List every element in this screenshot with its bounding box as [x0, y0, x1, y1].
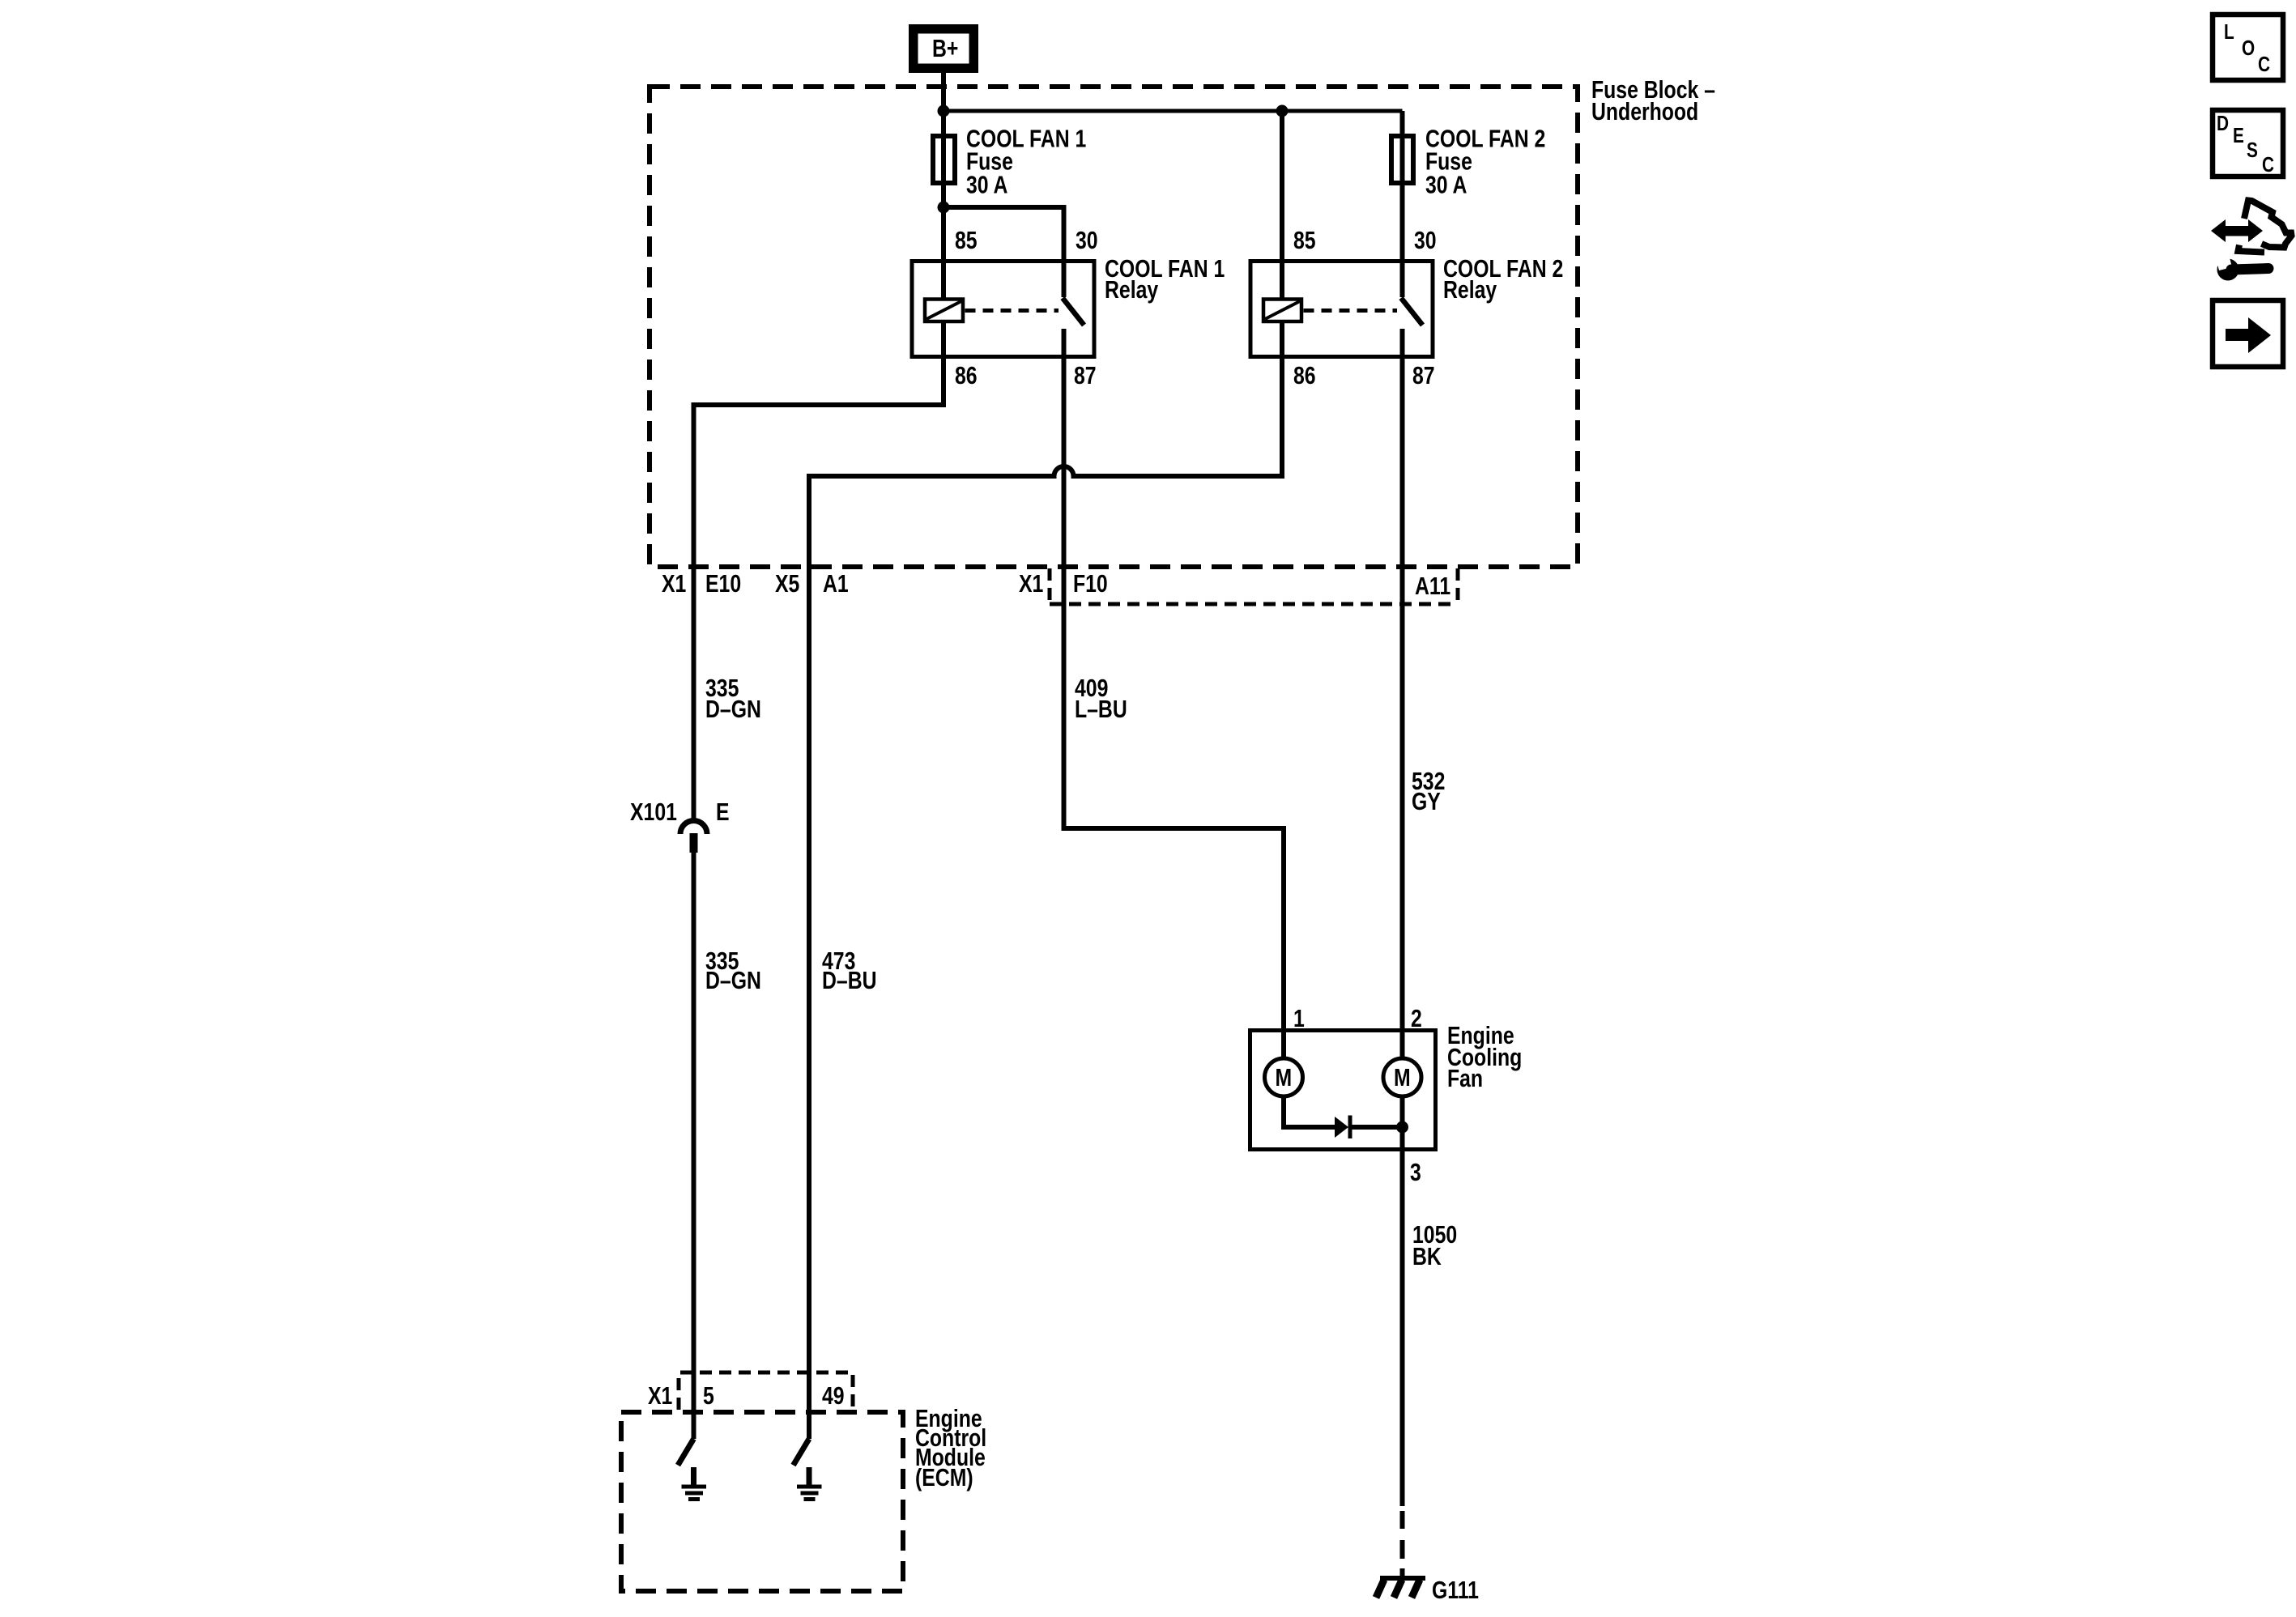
- ECM dashed box: [621, 1412, 903, 1591]
- relay 1 coil: [925, 300, 963, 322]
- svg-text:Underhood: Underhood: [1591, 97, 1698, 125]
- diode: [1335, 1116, 1403, 1139]
- connector row dashed box X1 F10 A11: [1050, 568, 1458, 604]
- svg-text:1: 1: [1293, 1004, 1305, 1032]
- label 335 D-GN lower: [705, 947, 761, 994]
- svg-text:C: C: [2262, 153, 2274, 177]
- wire relay 1 pin 87 to fan pin 1 circuit 409 L-BU: [1064, 329, 1284, 1057]
- svg-text:X5: X5: [775, 569, 799, 597]
- svg-text:86: 86: [1293, 361, 1316, 389]
- ECM switch blade pin 5: [678, 1439, 694, 1466]
- connector label X1 F10: [1019, 569, 1108, 597]
- svg-text:B+: B+: [932, 34, 958, 62]
- fuse block - underhood dashed box: [650, 87, 1578, 567]
- svg-text:E: E: [716, 798, 730, 825]
- svg-text:X1: X1: [648, 1381, 672, 1409]
- relay 1 switch blade pin 30 to 87: [1063, 298, 1084, 326]
- svg-text:E10: E10: [705, 569, 741, 597]
- svg-text:3: 3: [1410, 1158, 1421, 1185]
- ground symbol ECM pin 5: [682, 1467, 707, 1500]
- svg-text:D–GN: D–GN: [705, 966, 761, 994]
- wire B+ down through fuse 1 to relay 1 coil pin 85: [941, 73, 946, 299]
- fan motor M right: [1383, 1058, 1421, 1096]
- wire bus feed to cool fan 2 branch: [944, 109, 1403, 113]
- junction at cool fan 2 branch: [1276, 105, 1289, 117]
- icon hand with double arrow and wrench: [2211, 201, 2292, 281]
- svg-text:L: L: [2224, 20, 2234, 44]
- label 473 D-BU: [822, 947, 877, 994]
- connector label X1 E10: [662, 569, 741, 597]
- svg-text:D: D: [2217, 112, 2229, 135]
- svg-text:Fan: Fan: [1447, 1064, 1483, 1091]
- label COOL FAN 2 Relay: [1443, 254, 1563, 303]
- relay COOL FAN 1 box: [912, 262, 1094, 357]
- svg-text:30: 30: [1076, 226, 1098, 253]
- wire X101 to ECM connector: [692, 853, 696, 1439]
- svg-text:Relay: Relay: [1105, 275, 1159, 303]
- label COOL FAN 1 Relay: [1105, 254, 1225, 303]
- label 409 L-BU: [1075, 674, 1127, 722]
- label COOL FAN 2 Fuse 30 A: [1425, 125, 1545, 198]
- svg-text:L–BU: L–BU: [1075, 695, 1127, 722]
- svg-text:D–GN: D–GN: [705, 695, 761, 722]
- label Engine Control Module (ECM): [915, 1404, 986, 1491]
- ECM connector dashed box X1 5 49: [679, 1372, 853, 1410]
- wire relay 1 pin 86 to ECM pin 5 circuit 335 D-GN: [694, 322, 944, 819]
- svg-text:5: 5: [703, 1381, 714, 1409]
- svg-text:E: E: [2233, 124, 2244, 147]
- power symbol B+: [909, 24, 978, 73]
- svg-text:(ECM): (ECM): [915, 1463, 973, 1491]
- fan motor M left: [1265, 1058, 1303, 1096]
- svg-text:X101: X101: [630, 798, 677, 825]
- svg-text:30: 30: [1414, 226, 1437, 253]
- svg-text:A11: A11: [1415, 572, 1450, 599]
- junction in fan at diode: [1396, 1121, 1408, 1134]
- svg-text:D–BU: D–BU: [822, 966, 877, 994]
- svg-text:M: M: [1276, 1063, 1293, 1091]
- wire junction to relay 2 pin 85: [1280, 111, 1284, 299]
- svg-text:GY: GY: [1412, 787, 1441, 815]
- ground G111: [1376, 1578, 1425, 1598]
- label Engine Cooling Fan: [1447, 1021, 1522, 1091]
- wire relay 2 pin 86 to ECM pin 49 circuit 473 D-BU with hop over 409: [809, 322, 1282, 1439]
- svg-text:A1: A1: [823, 569, 849, 597]
- junction below fuse 1: [938, 202, 950, 214]
- wire left motor to diode: [1284, 1096, 1335, 1127]
- label 532 GY: [1412, 767, 1445, 815]
- label 1050 BK: [1412, 1220, 1457, 1270]
- fuse COOL FAN 2 30 A: [1391, 136, 1413, 183]
- wire right motor down through fan pin 3: [1400, 1095, 1405, 1506]
- relay COOL FAN 2 box: [1250, 262, 1433, 357]
- ground symbol ECM pin 49: [797, 1467, 822, 1500]
- svg-text:Relay: Relay: [1443, 275, 1497, 303]
- label 335 D-GN upper: [705, 674, 761, 722]
- svg-text:X1: X1: [662, 569, 686, 597]
- wire fuse block feed to fuse 2 and relay 2 pin 30: [1400, 111, 1405, 297]
- svg-text:49: 49: [822, 1381, 845, 1409]
- svg-text:G111: G111: [1432, 1576, 1479, 1603]
- label Fuse Block - Underhood: [1591, 75, 1715, 125]
- dashed wire to ground G111: [1400, 1511, 1405, 1578]
- relay 1 coil-switch dashed link: [965, 309, 1059, 313]
- svg-text:30 A: 30 A: [966, 171, 1007, 198]
- connector label X5 A1: [775, 569, 849, 597]
- icon arrow box: [2213, 300, 2283, 367]
- engine cooling fan box: [1250, 1031, 1436, 1150]
- svg-text:87: 87: [1074, 361, 1097, 389]
- svg-text:F10: F10: [1073, 569, 1108, 597]
- svg-text:2: 2: [1411, 1004, 1422, 1032]
- svg-text:O: O: [2242, 36, 2255, 60]
- svg-text:M: M: [1394, 1063, 1411, 1091]
- svg-text:30 A: 30 A: [1425, 171, 1467, 198]
- svg-text:86: 86: [955, 361, 978, 389]
- relay 2 coil: [1263, 300, 1301, 322]
- svg-text:X1: X1: [1019, 569, 1043, 597]
- svg-text:85: 85: [955, 226, 978, 253]
- wire relay 2 pin 87 to fan pin 2 circuit 532 GY: [1400, 329, 1405, 1057]
- fuse COOL FAN 1 30 A: [933, 136, 955, 183]
- ECM switch blade pin 49: [794, 1439, 810, 1466]
- inline connector X101 terminal E: [680, 821, 707, 853]
- svg-text:S: S: [2247, 138, 2258, 162]
- wire fuse 1 to relay 1 pin 30: [944, 207, 1064, 297]
- icon LOC box: [2213, 15, 2283, 80]
- svg-text:BK: BK: [1412, 1242, 1442, 1270]
- svg-text:C: C: [2258, 53, 2270, 76]
- icon DESC box: [2213, 110, 2283, 177]
- relay 2 coil-switch dashed link: [1304, 309, 1398, 313]
- junction at B+ bus: [938, 105, 950, 117]
- label COOL FAN 1 Fuse 30 A: [966, 125, 1086, 198]
- svg-text:85: 85: [1293, 226, 1316, 253]
- svg-text:87: 87: [1412, 361, 1435, 389]
- relay 2 switch blade pin 30 to 87: [1401, 298, 1423, 326]
